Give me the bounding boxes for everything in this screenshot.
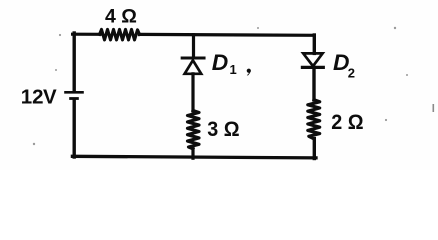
resistor 2 ohm (vertical coil) [308, 100, 320, 139]
svg-text:2 Ω: 2 Ω [331, 110, 363, 134]
wire left vertical upper (top wire to battery +) [72, 33, 75, 91]
wire right branch middle (diode D2 cathode to 2-ohm resistor) [312, 67, 315, 100]
wire right branch upper (top wire to diode D2 anode) [313, 35, 316, 53]
wire middle branch (diode D1 anode to 3-ohm resistor) [191, 74, 194, 111]
svg-text:1: 1 [230, 62, 237, 77]
svg-text:D: D [212, 50, 229, 75]
wire bottom horizontal (node D to node E) [72, 156, 316, 158]
comma mark after D1 [247, 69, 251, 76]
diode D2 triangle (anode, pointing down) [303, 53, 322, 66]
svg-text:2: 2 [348, 66, 355, 81]
diode D2 cathode bar [302, 66, 323, 69]
diode D1 cathode bar [182, 56, 204, 59]
diode D1 triangle (anode, pointing up) [185, 60, 202, 74]
wire top-left horizontal (battery + to 4-ohm resistor) [73, 33, 100, 36]
wire middle branch upper (top wire to diode D1 cathode) [192, 35, 195, 57]
svg-text:V: V [43, 85, 57, 108]
wire right branch lower (2-ohm to bottom wire) [313, 139, 316, 159]
wire middle branch lower (3-ohm to bottom wire) [191, 149, 194, 158]
svg-text:12: 12 [21, 85, 44, 108]
wire left vertical lower (battery - to bottom wire) [72, 100, 75, 157]
battery V1 12V negative plate (short) [69, 97, 79, 100]
scan noise specks [33, 27, 434, 145]
battery V1 12V positive plate (long) [64, 91, 84, 94]
wire top horizontal (4-ohm to node B and node C) [140, 33, 315, 37]
svg-text:3 Ω: 3 Ω [207, 117, 239, 141]
resistor 4 ohm (zigzag) [100, 29, 140, 40]
resistor 3 ohm (vertical coil) [188, 111, 200, 149]
svg-text:4 Ω: 4 Ω [105, 6, 137, 28]
